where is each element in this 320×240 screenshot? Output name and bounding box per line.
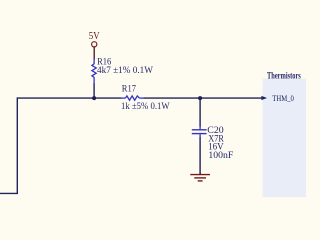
wire R17 to arrow	[144, 97, 262, 99]
resistor R17 left lead	[121, 97, 126, 99]
svg-text:THM_0: THM_0	[272, 93, 294, 103]
svg-text:1k ±5% 0.1W: 1k ±5% 0.1W	[121, 102, 170, 112]
capacitor C20 top plate	[192, 129, 207, 131]
wire R16 to junction	[93, 84, 95, 99]
resistor R17 right lead	[139, 97, 144, 99]
svg-text:5V: 5V	[89, 31, 100, 42]
capacitor C20 bottom plate	[192, 133, 207, 135]
svg-text:100nF: 100nF	[208, 151, 233, 161]
power port 5V circle	[92, 42, 97, 47]
ground bar 1	[190, 174, 210, 176]
resistor R17 zigzag	[125, 96, 139, 100]
ground bar 2	[194, 177, 206, 179]
wire bottom horizontal	[0, 192, 18, 194]
power port 5V stem	[93, 47, 95, 60]
wire main horizontal	[17, 97, 121, 99]
sheet symbol Thermistors (fill)	[263, 79, 308, 198]
ground bar 3	[198, 180, 203, 182]
resistor R16 zigzag	[92, 64, 96, 78]
capacitor C20 top pin	[199, 126, 201, 129]
ground stem	[199, 173, 201, 175]
wire arrow into THM_0	[261, 96, 267, 100]
resistor R16 bottom lead	[93, 77, 95, 84]
wire left vertical	[16, 97, 18, 193]
wire junction to C20	[199, 98, 201, 127]
svg-text:R17: R17	[122, 84, 136, 94]
junction dot at R16	[92, 96, 96, 100]
resistor R16 top lead	[93, 59, 95, 64]
wire C20 to ground	[199, 137, 201, 174]
junction dot at C20	[198, 96, 202, 100]
capacitor C20 bottom pin	[199, 134, 201, 138]
svg-text:4k7 ±1% 0.1W: 4k7 ±1% 0.1W	[97, 66, 153, 76]
svg-text:Thermistors: Thermistors	[267, 72, 301, 82]
